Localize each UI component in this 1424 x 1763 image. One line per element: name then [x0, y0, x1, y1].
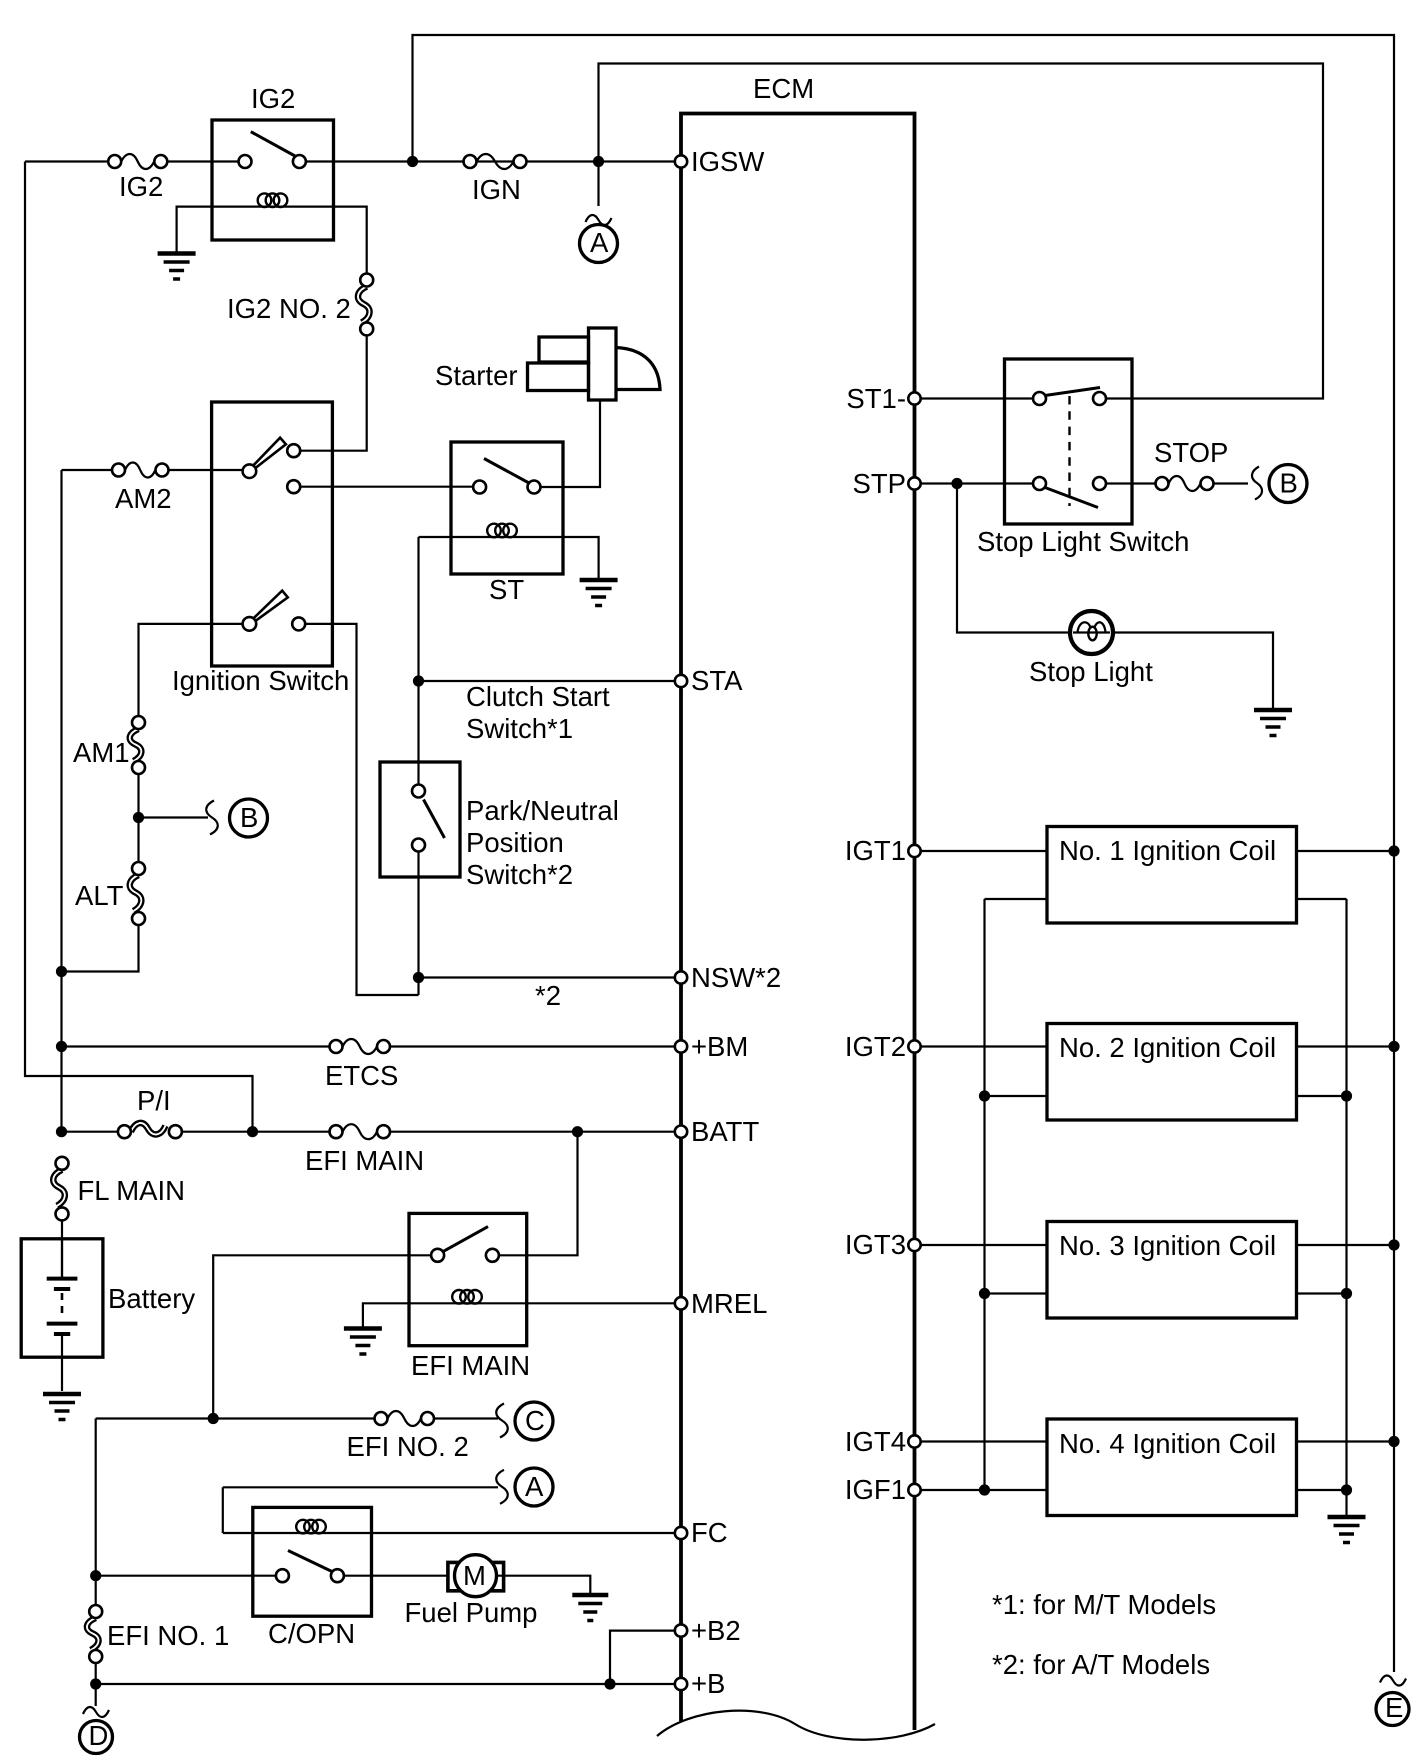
wire FL MAIN to battery: [61, 1220, 63, 1278]
svg-text:*1: for M/T Models: *1: for M/T Models: [992, 1589, 1216, 1620]
wire coil2 right to outer bus: [1297, 1045, 1395, 1047]
stop light switch: [977, 359, 1189, 557]
wire IGSW row left segment: [25, 160, 108, 162]
ECM pin IGT2: [845, 1031, 921, 1062]
junction dot ALT to left bus: [56, 966, 67, 977]
wire stop light to ground: [1111, 633, 1273, 709]
fuse AM2: [112, 463, 172, 515]
fuse ETCS: [325, 1039, 398, 1091]
wire relay ST coil to clutch start vertical: [419, 536, 452, 538]
svg-text:P/I: P/I: [137, 1085, 171, 1116]
svg-text:NSW*2: NSW*2: [691, 962, 781, 993]
wire IGT2 line: [921, 1045, 1047, 1047]
wire coil3 right to outer bus: [1297, 1244, 1395, 1246]
wire top bus from IGSW junction to right outer bus: [413, 35, 1395, 1672]
stop light lamp: [1029, 611, 1153, 687]
svg-text:+B: +B: [691, 1668, 725, 1699]
svg-text:M: M: [463, 1560, 486, 1591]
svg-text:*2: *2: [535, 980, 561, 1011]
ECM pin FC: [675, 1517, 728, 1548]
junction dot coil3 ground bus: [1341, 1288, 1352, 1299]
junction dot STA: [413, 675, 424, 686]
svg-text:ST: ST: [489, 574, 524, 605]
wire IGT4 line: [921, 1440, 1047, 1442]
wire MREL line: [527, 1302, 675, 1304]
svg-text:EFI NO. 2: EFI NO. 2: [347, 1431, 469, 1462]
junction dot coil4 ground bus: [1341, 1484, 1352, 1495]
connector C: [496, 1402, 553, 1440]
wire ignition switch ST contact down to NSW branch: [305, 624, 418, 995]
svg-text:Switch*1: Switch*1: [466, 713, 573, 744]
svg-text:STOP: STOP: [1154, 437, 1228, 468]
relay ST: [451, 442, 563, 605]
wire STA line: [419, 680, 675, 682]
junction dot coil2 IGF bus: [979, 1090, 990, 1101]
svg-text:EFI NO. 1: EFI NO. 1: [107, 1620, 229, 1651]
wire stop light switch to fuse STOP: [1106, 482, 1156, 484]
junction dot coil2 ground bus: [1341, 1090, 1352, 1101]
svg-text:IGT3: IGT3: [845, 1229, 906, 1260]
relay C/OPN: [253, 1507, 372, 1649]
svg-text:BATT: BATT: [691, 1116, 759, 1147]
wire relay EFI MAIN coil to ground: [363, 1303, 409, 1326]
junction dot STP: [951, 478, 962, 489]
wire ignition switch lower pivot to fusible link AM1: [139, 624, 244, 716]
svg-text:Stop Light Switch: Stop Light Switch: [977, 526, 1189, 557]
ECM torn bottom edge: [657, 1711, 935, 1740]
svg-text:STA: STA: [691, 665, 743, 696]
fuel pump motor: [405, 1555, 538, 1628]
svg-text:C/OPN: C/OPN: [268, 1618, 355, 1649]
starter: [435, 328, 660, 400]
wire relay ST coil to ground: [563, 537, 599, 578]
wire IGF bus left: [983, 899, 985, 1490]
junction dot EFI NO.2: [208, 1413, 219, 1424]
ground below relay ST: [580, 580, 618, 606]
connector D: [80, 1707, 113, 1754]
junction dot coil1 outer bus: [1388, 845, 1399, 856]
ground below relay IG2: [158, 254, 196, 280]
svg-text:ETCS: ETCS: [325, 1060, 398, 1091]
ignition coil no.1: [1047, 827, 1297, 924]
svg-text:Switch*2: Switch*2: [466, 859, 573, 890]
wire coil3 bottom left: [985, 1292, 1048, 1294]
svg-text:ALT: ALT: [75, 880, 124, 911]
svg-text:IG2: IG2: [119, 171, 163, 202]
svg-text:No. 2 Ignition Coil: No. 2 Ignition Coil: [1059, 1032, 1276, 1063]
wire to connector A top: [597, 167, 599, 206]
ECM pin +BM: [675, 1031, 749, 1062]
ground below relay EFI MAIN coil: [344, 1329, 382, 1355]
junction dot +B2 branch: [604, 1678, 615, 1689]
wire fuse AM2 to ignition switch pivot: [169, 469, 244, 471]
junction dot IGF1 bus: [979, 1484, 990, 1495]
ECM pin IGT4: [845, 1426, 921, 1457]
wire relay IG2 coil to fusible link IG2 NO.2: [334, 207, 367, 274]
svg-text:FL MAIN: FL MAIN: [78, 1175, 185, 1206]
ECM pin ST1-: [846, 383, 920, 414]
wire coil4 right to outer bus: [1297, 1440, 1395, 1442]
svg-text:Battery: Battery: [108, 1283, 195, 1314]
wire fuel pump to ground: [497, 1576, 590, 1593]
junction dot coil4 outer bus: [1388, 1436, 1399, 1447]
battery: [21, 1239, 195, 1391]
wire coil1 right to outer bus: [1297, 850, 1395, 852]
wire clutch start vertical: [417, 537, 419, 785]
svg-text:Position: Position: [466, 827, 564, 858]
wire EFI NO.2 line: [96, 1417, 375, 1419]
wire fusible link ALT to left bus: [62, 925, 139, 972]
fuse IG2: [108, 154, 167, 202]
svg-text:AM2: AM2: [115, 483, 172, 514]
svg-text:B: B: [1280, 468, 1298, 499]
junction dot IGN line: [593, 156, 604, 167]
svg-text:Ignition Switch: Ignition Switch: [172, 665, 349, 696]
svg-text:+BM: +BM: [691, 1031, 748, 1062]
svg-text:ST1-: ST1-: [846, 383, 906, 414]
junction dot IGSW top bus: [407, 156, 418, 167]
junction dot BATT x252: [247, 1126, 258, 1137]
fuse EFI MAIN: [305, 1124, 424, 1176]
relay IG2: [212, 83, 334, 240]
wire +B2 branch: [610, 1631, 675, 1684]
wire coil4 bottom right: [1297, 1489, 1347, 1491]
wire coil3 bottom right: [1297, 1292, 1347, 1294]
junction dot coil3 IGF bus: [979, 1288, 990, 1299]
ground coil bus: [1328, 1517, 1366, 1543]
svg-text:Clutch Start: Clutch Start: [466, 681, 610, 712]
wire relay EFI MAIN left contact to EFI NO.2 line: [213, 1255, 431, 1418]
svg-text:No. 3 Ignition Coil: No. 3 Ignition Coil: [1059, 1230, 1276, 1261]
ECM pin +B2: [675, 1615, 741, 1646]
ECM pin NSW*2: [675, 962, 781, 993]
svg-text:D: D: [89, 1720, 109, 1751]
svg-text:Fuel Pump: Fuel Pump: [405, 1597, 538, 1628]
ECM pin +B: [675, 1668, 726, 1699]
left vertical bus x61.5: [60, 470, 62, 1132]
relay EFI MAIN: [409, 1213, 530, 1381]
fusible link ALT: [75, 862, 145, 925]
svg-text:FC: FC: [691, 1517, 728, 1548]
connector E: [1376, 1675, 1409, 1725]
svg-text:A: A: [525, 1471, 544, 1502]
junction dot NSW: [413, 972, 424, 983]
wire second top line from IGN junction to ST1- line: [599, 64, 1324, 399]
svg-text:ECM: ECM: [753, 73, 814, 104]
wire IGF1 line: [921, 1489, 1047, 1491]
wire STP line pin to switch: [921, 482, 1033, 484]
ECM pin STA: [675, 665, 743, 696]
fuse EFI NO.2: [347, 1411, 469, 1462]
ignition switch: [172, 402, 473, 696]
wire fusible link AM1 to connector B branch: [137, 774, 139, 862]
wire to connector B: [139, 816, 209, 818]
ECM pin IGT3: [845, 1229, 921, 1260]
ground fuel pump: [572, 1595, 608, 1621]
ignition coil no.3: [1047, 1222, 1297, 1319]
svg-text:*2: for A/T Models: *2: for A/T Models: [992, 1649, 1210, 1680]
junction dot connector B branch: [133, 812, 144, 823]
ECM pin STP: [853, 468, 921, 499]
wire fuse STOP to connector B: [1214, 482, 1249, 484]
wire coil1 bottom right: [1297, 898, 1347, 900]
wire ST1- line pin to switch: [921, 397, 1033, 399]
ignition coil no.2: [1047, 1024, 1297, 1121]
svg-text:E: E: [1385, 1692, 1403, 1723]
svg-text:IGSW: IGSW: [691, 146, 764, 177]
connector B left: [206, 799, 267, 837]
junction dot +B: [90, 1678, 101, 1689]
ECM box: [681, 73, 915, 1730]
svg-text:No. 1 Ignition Coil: No. 1 Ignition Coil: [1059, 835, 1276, 866]
svg-text:IGT1: IGT1: [845, 835, 906, 866]
clutch start switch label: [466, 681, 610, 744]
wire coil2 bottom right: [1297, 1095, 1347, 1097]
wire FC line: [223, 1532, 675, 1534]
junction dot coil2 outer bus: [1388, 1041, 1399, 1052]
svg-text:AM1: AM1: [73, 737, 130, 768]
fusible link AM1: [73, 716, 145, 774]
wire EFI NO.1 to +B line and connector D: [95, 1663, 97, 1706]
svg-text:IGF1: IGF1: [845, 1474, 906, 1505]
fusible link IG2 NO.2: [227, 274, 373, 336]
svg-text:B: B: [240, 802, 258, 833]
svg-text:EFI MAIN: EFI MAIN: [411, 1350, 530, 1381]
wire fuse EFI NO.2 to connector C: [434, 1417, 498, 1419]
wire BATT line right: [390, 1131, 675, 1133]
wire coil ground bus right: [1345, 899, 1347, 1515]
wire relay IG2 to ECM IGSW pin: [299, 160, 674, 162]
wire NSW line: [419, 976, 675, 978]
wire +BM line right: [390, 1045, 675, 1047]
svg-text:EFI MAIN: EFI MAIN: [305, 1145, 424, 1176]
ground stop light: [1254, 710, 1292, 736]
wire fusible link IG2 NO.2 to ignition switch contact: [300, 335, 366, 450]
svg-text:+B2: +B2: [691, 1615, 741, 1646]
wire BATT line middle: [182, 1131, 330, 1133]
fusible link FL MAIN: [53, 1157, 185, 1221]
junction dot coil3 outer bus: [1388, 1239, 1399, 1250]
wire +B line: [96, 1683, 675, 1685]
wire IGT1 line: [921, 850, 1047, 852]
wire park/neutral switch to NSW line: [417, 852, 419, 996]
wire STP to stop light: [957, 484, 1069, 633]
svg-text:IGT4: IGT4: [845, 1426, 906, 1457]
svg-text:A: A: [590, 227, 609, 258]
svg-text:No. 4 Ignition Coil: No. 4 Ignition Coil: [1059, 1428, 1276, 1459]
wire relay EFI MAIN right contact to BATT line: [499, 1132, 578, 1256]
park/neutral position switch: [380, 762, 619, 890]
connector A bottom: [496, 1468, 553, 1506]
svg-text:IG2: IG2: [251, 83, 295, 114]
wire fuel pump switch line: [96, 1575, 447, 1577]
ECM pin BATT: [675, 1116, 760, 1147]
fusible link EFI NO.1: [87, 1605, 229, 1663]
junction dot BATT left bus: [56, 1126, 67, 1137]
wire coil2 bottom left: [985, 1095, 1048, 1097]
svg-text:Starter: Starter: [435, 360, 518, 391]
wire relay IG2 coil to ground: [177, 207, 212, 252]
wire starter to relay ST: [541, 400, 601, 487]
leftmost wire from fuse IG2 down to BATT line: [25, 162, 253, 1132]
svg-text:STP: STP: [853, 468, 906, 499]
ECM pin IGT1: [845, 835, 921, 866]
connector A top: [580, 215, 618, 263]
fuse STOP: [1154, 437, 1228, 491]
svg-text:Park/Neutral: Park/Neutral: [466, 795, 619, 826]
fuse IGN: [464, 154, 527, 205]
wire BATT line left: [62, 1131, 119, 1133]
connector B right: [1252, 465, 1307, 503]
svg-text:IGT2: IGT2: [845, 1031, 906, 1062]
ignition coil no.4: [1047, 1419, 1297, 1516]
junction dot fuel pump line: [90, 1570, 101, 1581]
svg-text:MREL: MREL: [691, 1288, 767, 1319]
wire left vertical x95.7: [95, 1419, 97, 1606]
wire IGT3 line: [921, 1244, 1047, 1246]
ECM pin IGSW: [675, 146, 765, 177]
svg-text:IG2 NO. 2: IG2 NO. 2: [227, 293, 351, 324]
svg-text:Stop Light: Stop Light: [1029, 656, 1153, 687]
wire +BM line left: [62, 1045, 330, 1047]
svg-text:C: C: [525, 1405, 545, 1436]
ground below battery: [43, 1394, 81, 1420]
wire coil1 bottom left: [985, 898, 1048, 900]
wire fuse IG2 to relay IG2: [167, 160, 245, 162]
junction dot BATT x577: [572, 1126, 583, 1137]
ECM pin IGF1: [845, 1474, 921, 1505]
wire fuse AM2 to left vertical: [62, 469, 113, 471]
wire connector A line: [223, 1487, 498, 1533]
svg-text:IGN: IGN: [472, 174, 521, 205]
ECM pin MREL: [675, 1288, 768, 1319]
fusible link P/I: [118, 1085, 182, 1138]
junction dot +BM: [56, 1041, 67, 1052]
